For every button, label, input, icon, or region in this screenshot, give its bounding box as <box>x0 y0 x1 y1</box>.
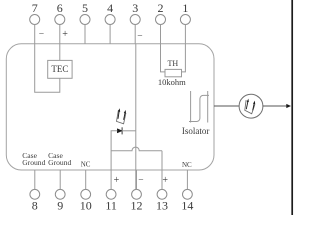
pin 5 <box>80 1 90 44</box>
pin 10 label NC <box>81 161 91 169</box>
svg-text:+: + <box>162 175 168 186</box>
output beam arrow <box>263 104 291 108</box>
wire diode cathode to long vertical <box>122 130 136 132</box>
svg-text:−: − <box>138 176 143 186</box>
svg-text:4: 4 <box>107 1 113 15</box>
pin 8 <box>30 170 40 213</box>
svg-text:6: 6 <box>57 1 63 15</box>
wire pin 3 to laser diode cathode and pin 12 (long vertical) <box>135 44 137 190</box>
optical isolator symbol <box>189 91 209 123</box>
butterfly package body outline <box>6 44 214 170</box>
pin 7 <box>30 1 40 44</box>
pin 8 label Case Ground <box>22 151 45 167</box>
svg-text:+: + <box>114 175 120 186</box>
svg-text:TH: TH <box>167 59 178 68</box>
laser diode D1 <box>117 127 122 134</box>
pin 6 polarity plus <box>62 29 68 40</box>
thermistor TH body <box>165 69 182 76</box>
frame border (table edge at right) <box>291 0 293 215</box>
svg-text:NC: NC <box>81 161 91 169</box>
svg-text:−: − <box>39 30 44 40</box>
pin 14 label NC <box>182 161 192 169</box>
svg-text:10: 10 <box>80 199 92 213</box>
svg-text:Ground: Ground <box>48 158 71 167</box>
pin 14 <box>181 170 193 213</box>
pin 11 polarity plus <box>114 175 120 186</box>
svg-text:8: 8 <box>32 199 38 213</box>
output fiber line from package edge to lens <box>214 105 239 107</box>
svg-text:11: 11 <box>105 199 117 213</box>
pin 13 polarity plus <box>162 175 168 186</box>
svg-text:10kohm: 10kohm <box>158 77 186 87</box>
Isolator label <box>182 126 210 136</box>
pin 10 <box>80 170 92 213</box>
thermistor value 10kohm <box>158 77 186 87</box>
pin 7 polarity minus <box>39 30 44 40</box>
svg-text:TEC: TEC <box>51 64 68 74</box>
svg-text:−: − <box>137 32 142 42</box>
lens / fiber coupling circle <box>239 94 263 118</box>
pin 12 <box>131 170 143 213</box>
pin 13 <box>156 170 168 213</box>
svg-text:1: 1 <box>182 1 188 15</box>
wire rail to pin 13 <box>161 151 163 170</box>
pin 3 polarity minus <box>137 32 142 42</box>
wire diode anode to pin 11 branch <box>111 131 117 170</box>
svg-text:+: + <box>62 29 68 40</box>
svg-text:NC: NC <box>182 161 192 169</box>
svg-text:7: 7 <box>32 1 38 15</box>
thermistor TH label <box>167 59 178 68</box>
pin 1 <box>180 1 190 44</box>
light emission symbol inside lens (tilted box with two arrows) <box>245 99 255 114</box>
pin 6 <box>55 1 65 44</box>
wire TEC bottom to pin 7 <box>35 44 60 92</box>
wire thermistor right lead to pin 1 <box>182 44 186 72</box>
pin 12 polarity minus <box>138 176 143 186</box>
light emission symbol at laser diode (tilted box with two arrows) <box>117 108 127 124</box>
svg-text:3: 3 <box>132 1 138 15</box>
wire crossover hop (rail jumps long vertical) <box>111 147 162 151</box>
TEC module U1 <box>48 60 72 78</box>
pin 3 <box>130 1 140 44</box>
svg-text:14: 14 <box>181 199 193 213</box>
svg-text:2: 2 <box>158 1 164 15</box>
pin 2 <box>156 1 166 44</box>
pin 9 label Case Ground <box>48 151 71 167</box>
svg-text:13: 13 <box>156 199 168 213</box>
svg-text:Ground: Ground <box>22 158 45 167</box>
svg-text:5: 5 <box>82 1 88 15</box>
wire pin 2 to thermistor left lead <box>161 44 166 72</box>
pin 4 <box>105 1 115 44</box>
svg-text:Isolator: Isolator <box>182 126 210 136</box>
pin 11 <box>105 170 117 213</box>
wire pin 6 to TEC top <box>59 44 61 61</box>
svg-text:12: 12 <box>131 199 143 213</box>
pin 9 <box>55 170 65 213</box>
svg-text:9: 9 <box>57 199 63 213</box>
